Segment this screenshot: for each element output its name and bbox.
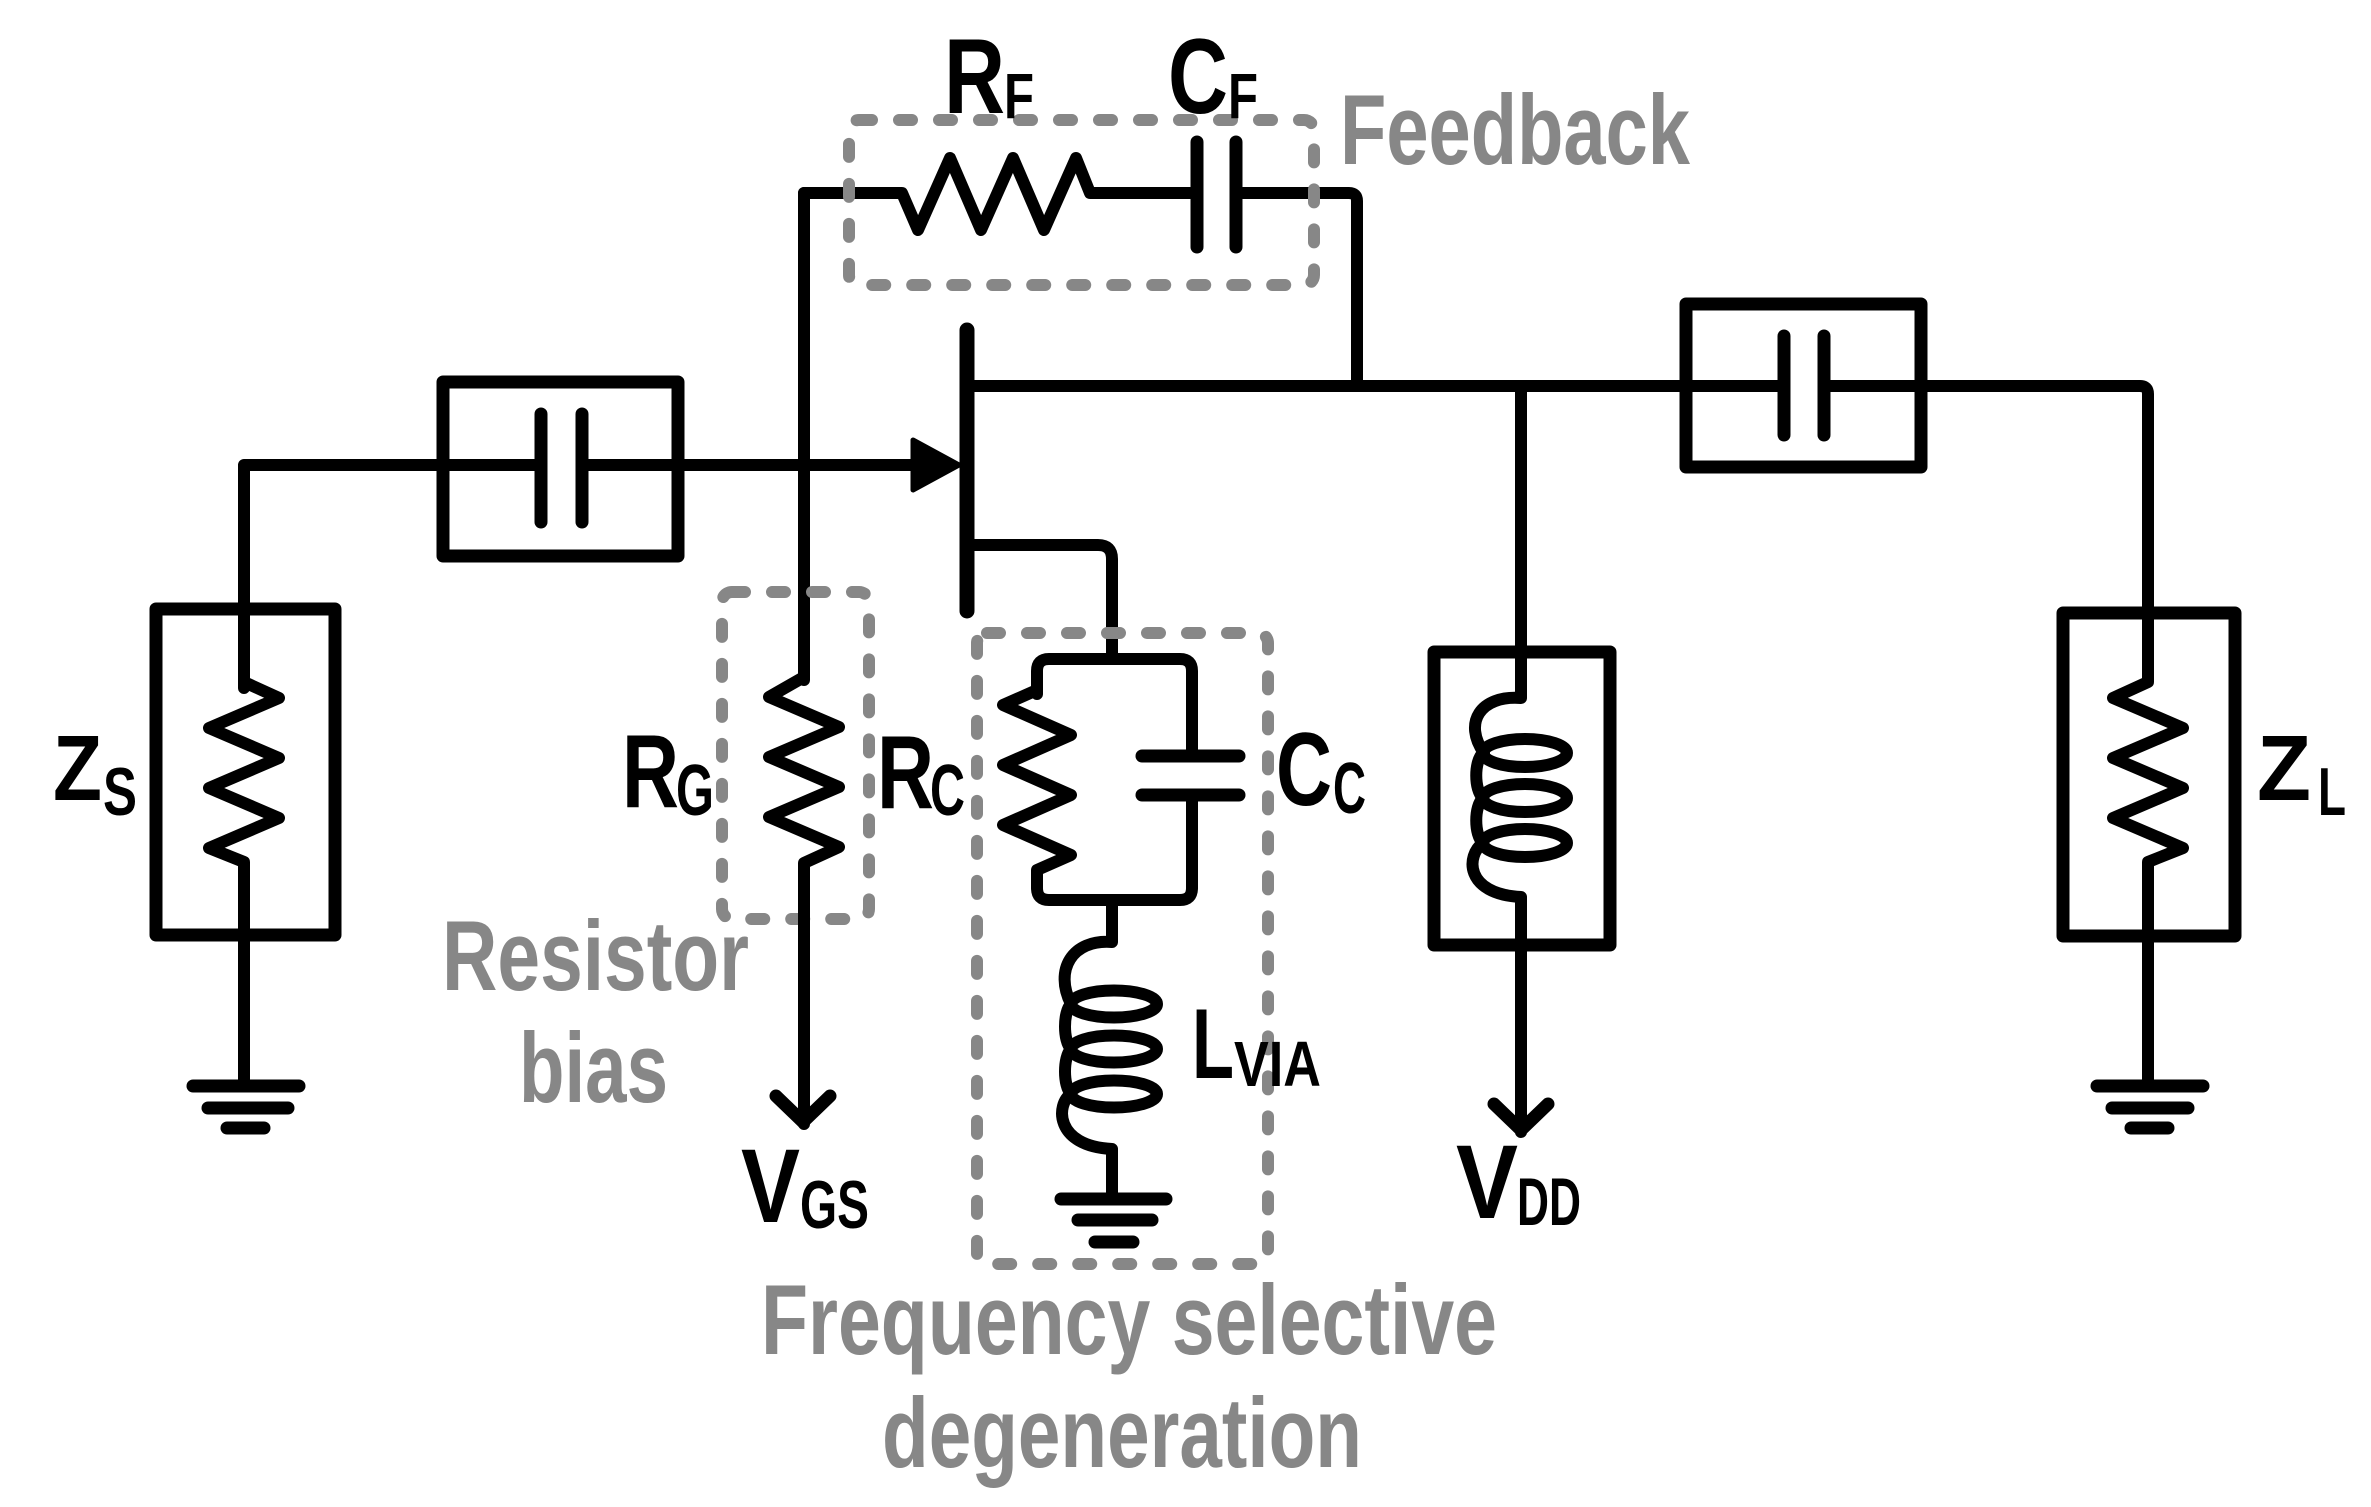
svg-text:L: L [1192, 988, 1234, 1099]
resistor RG with stem to VGS [769, 677, 839, 1124]
resistor bias dashed box [722, 592, 869, 919]
resistor ZS [209, 682, 279, 1086]
label CC [1276, 712, 1366, 829]
label VGS [741, 1128, 869, 1245]
svg-text:Z: Z [2257, 716, 2311, 820]
svg-text:Frequency selective: Frequency selective [761, 1264, 1497, 1375]
svg-text:GS: GS [800, 1167, 869, 1243]
RF choke box [1434, 652, 1610, 945]
svg-text:L: L [2318, 754, 2346, 830]
capacitor CC plates [1142, 756, 1239, 795]
svg-text:Feedback: Feedback [1340, 74, 1691, 185]
svg-text:V: V [741, 1128, 800, 1245]
ground (degeneration) [1061, 1199, 1166, 1242]
label RG [622, 714, 714, 831]
wire: RC/CC parallel top bar [1037, 659, 1192, 753]
label ZL [2257, 716, 2346, 830]
coupling capacitor C1 plates [541, 414, 582, 522]
svg-text:R: R [622, 714, 679, 830]
resistor RC [1003, 690, 1071, 880]
wire: drain rail (Q1 drain to C2) [967, 380, 1784, 392]
VDD arrowhead [1494, 1104, 1548, 1130]
wire: output node C2 to ZL [1824, 386, 2148, 618]
label LVIA [1192, 988, 1321, 1100]
svg-text:C: C [930, 751, 965, 831]
wire: CC bottom plate to bar [1186, 799, 1198, 880]
svg-text:bias: bias [519, 1012, 668, 1123]
resistor RF with leads [804, 158, 1190, 230]
wire: Q1 source tap [967, 545, 1112, 659]
wire: RC/CC parallel bottom bar [1037, 876, 1192, 900]
label CF [1168, 16, 1258, 136]
label Frequency selective degeneration [761, 1264, 1497, 1488]
svg-text:R: R [877, 715, 934, 831]
wire: feedback left / gate bias vertical [798, 193, 810, 680]
label VDD [1456, 1124, 1581, 1241]
svg-text:C: C [1333, 749, 1366, 829]
load impedance box ZL [2063, 613, 2235, 936]
VGS arrowhead [776, 1096, 830, 1122]
gate arrowhead [913, 440, 959, 490]
svg-text:C: C [1276, 712, 1332, 828]
label ZS [53, 716, 137, 830]
wire: CF to drain rail (feedback right) [1243, 193, 1357, 386]
capacitor CF plates [1197, 142, 1236, 247]
svg-text:degeneration: degeneration [882, 1377, 1362, 1488]
svg-text:DD: DD [1517, 1164, 1581, 1240]
svg-text:Z: Z [53, 716, 102, 820]
label RC [877, 715, 965, 831]
svg-text:V: V [1456, 1124, 1518, 1241]
svg-text:C: C [1168, 16, 1228, 136]
transistor Q1 gate bar [960, 330, 975, 611]
coupling capacitor C2 box [1686, 304, 1921, 467]
ground (source side) [193, 1086, 299, 1128]
svg-text:Resistor: Resistor [442, 900, 749, 1011]
svg-text:F: F [1004, 60, 1034, 132]
coupling capacitor C1 box [443, 382, 678, 556]
label Resistor bias [442, 900, 749, 1123]
coupling capacitor C2 plates [1784, 336, 1824, 435]
wire: C1 to transistor gate [582, 459, 916, 471]
svg-text:R: R [944, 16, 1005, 136]
svg-text:S: S [103, 754, 137, 830]
svg-text:VIA: VIA [1234, 1028, 1321, 1100]
inductor choke (bias) [1473, 386, 1567, 1132]
feedback dashed box [849, 120, 1314, 285]
inductor LVIA [1062, 900, 1157, 1193]
svg-text:G: G [676, 751, 714, 831]
label RF [944, 16, 1034, 136]
resistor ZL [2113, 616, 2183, 1086]
ground (load) [2097, 1086, 2203, 1128]
wire: input node Zs top to coupling cap C1 [244, 465, 541, 688]
svg-text:F: F [1228, 60, 1258, 132]
source impedance box ZS [156, 609, 335, 935]
frequency selective degeneration dashed box [977, 633, 1268, 1264]
